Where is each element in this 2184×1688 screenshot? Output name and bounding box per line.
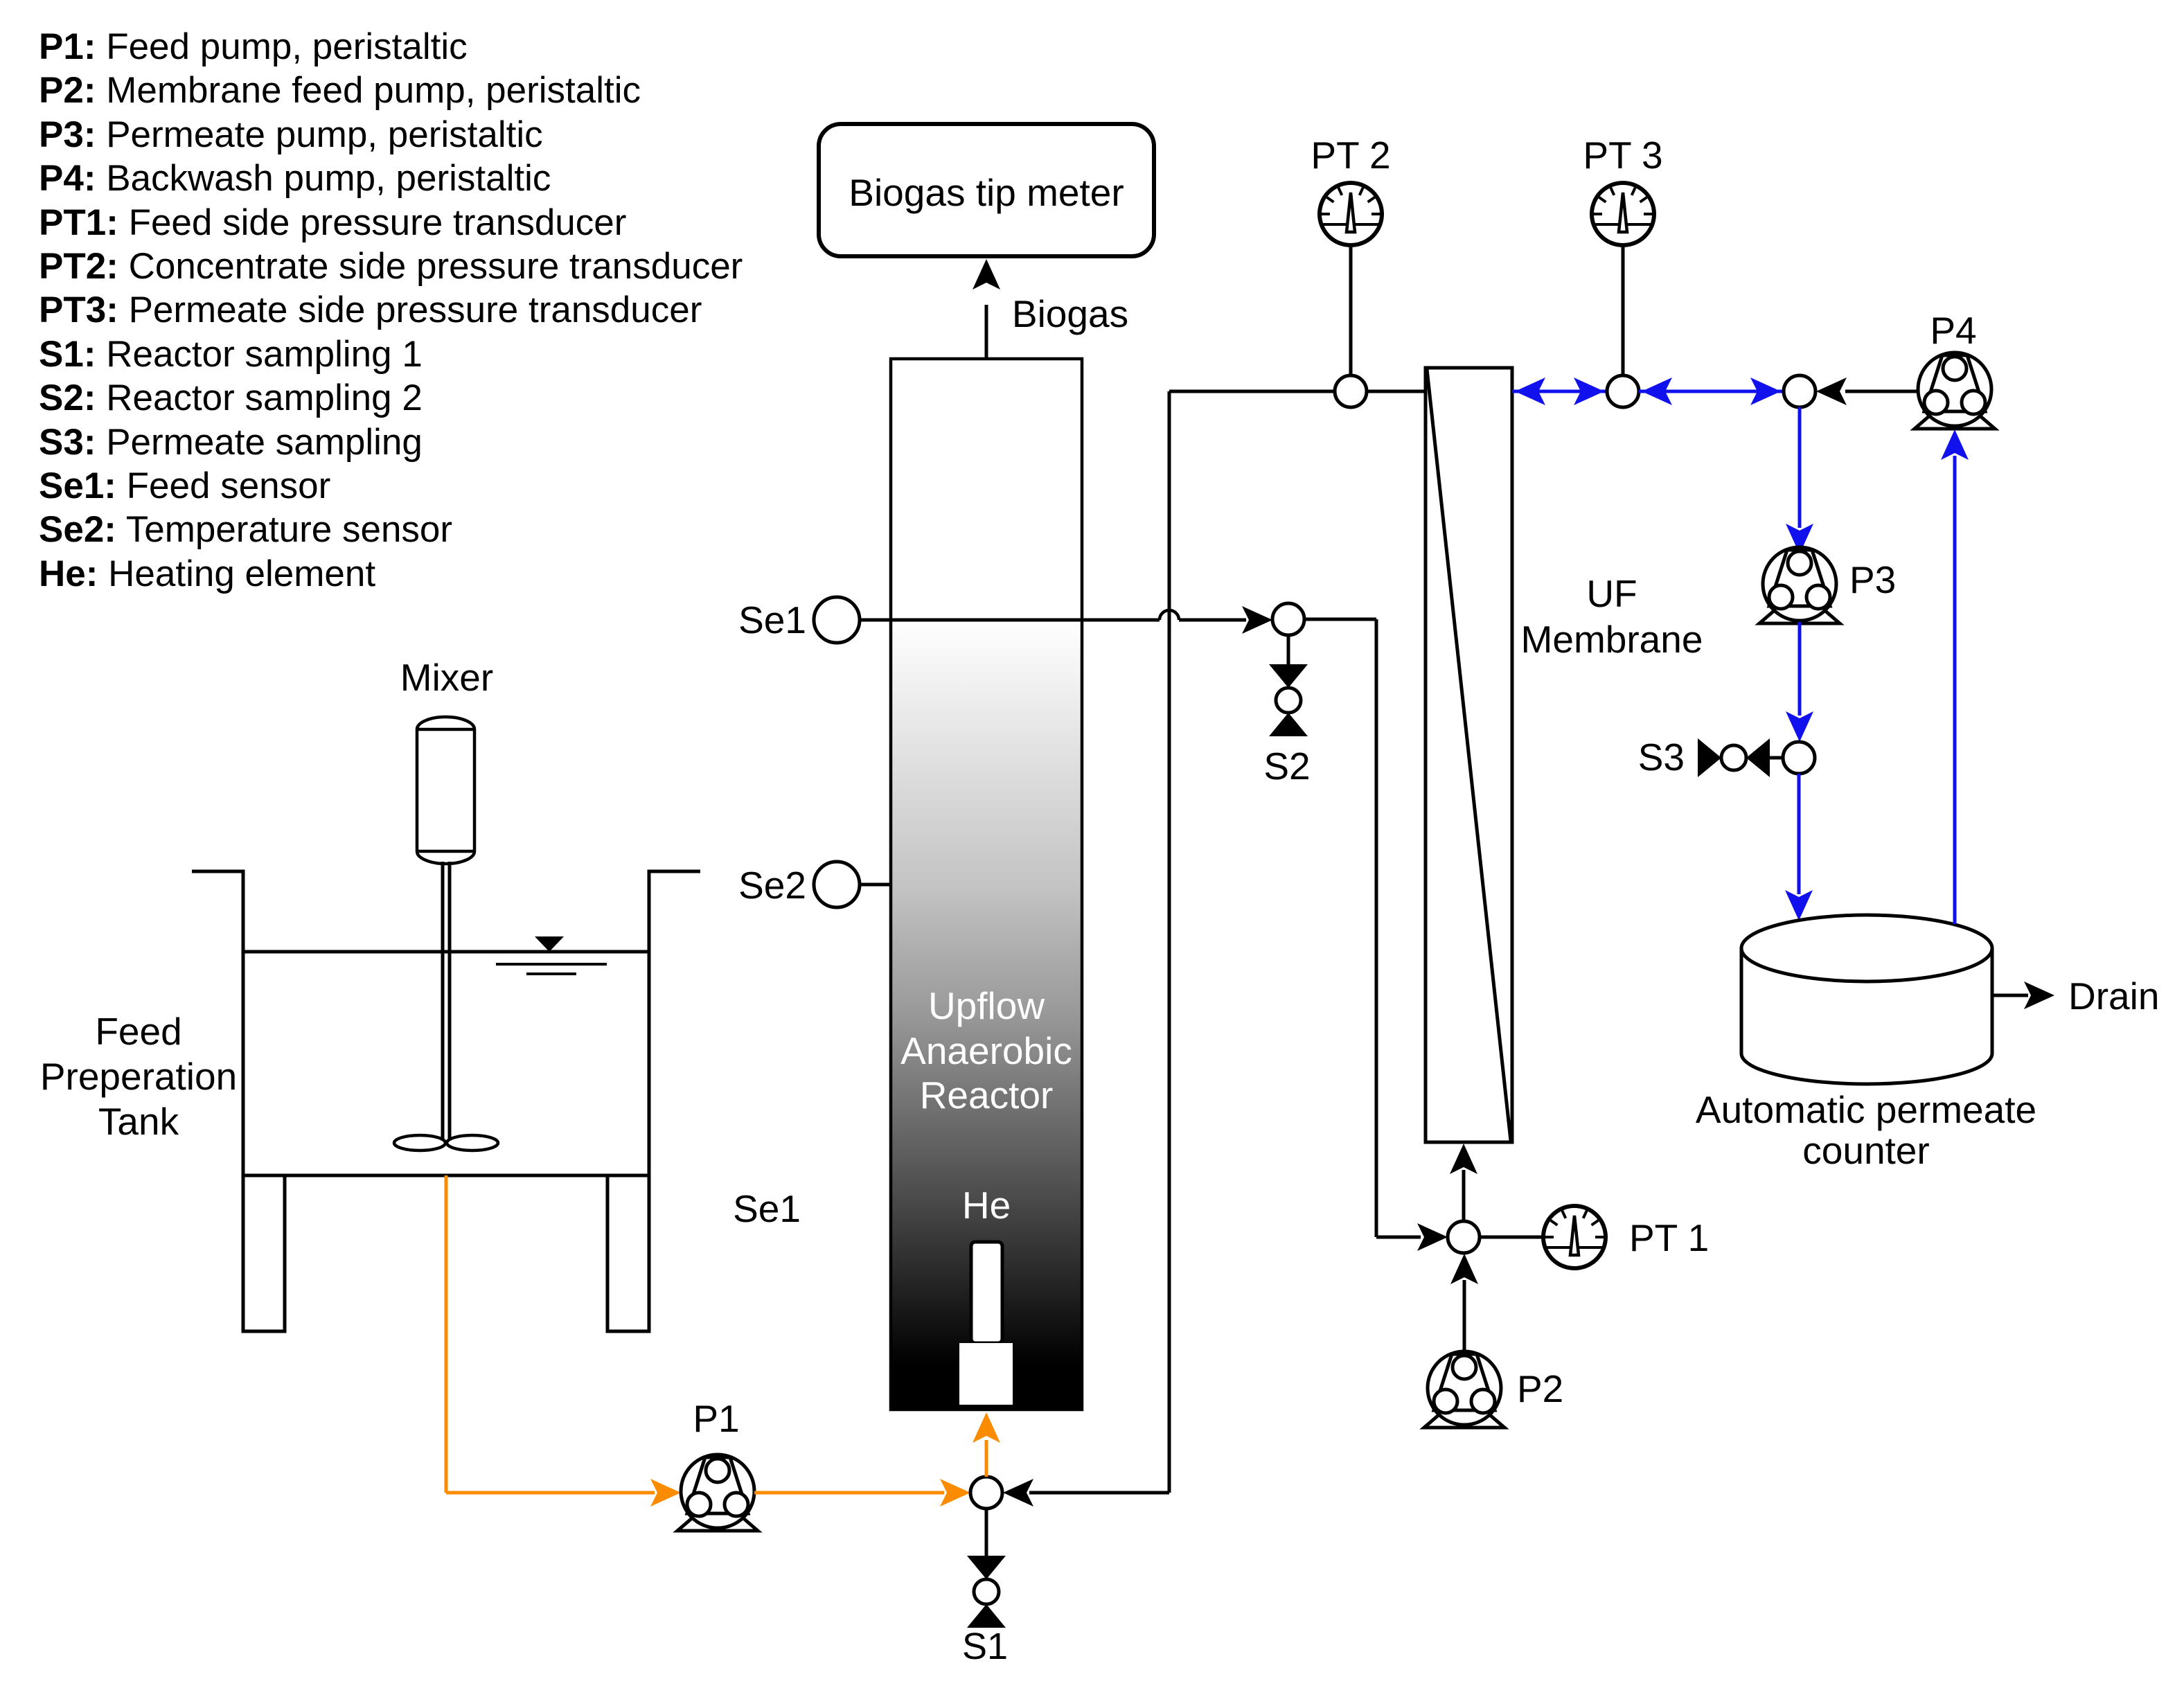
wire orange to pump P1 [446,1491,655,1495]
mixer motor [417,717,474,864]
biogas tip meter box [819,124,1154,256]
svg-text:P4: P4 [1930,309,1976,352]
upflow anaerobic reactor vessel [891,359,1082,1410]
legend text block [39,26,743,594]
pump P2 [1424,1351,1504,1428]
svg-text:Se1: Feed sensor: Se1: Feed sensor [39,465,330,506]
wire P2 to junction [1463,1280,1466,1351]
wire orange P1 to junction [754,1491,944,1495]
pump P4 [1915,353,1995,429]
wire PT3 stem [1622,245,1625,375]
wire S2 junction to membrane feed [1304,618,1376,621]
wire PT1 stem [1480,1236,1544,1239]
wire top concentrate pipe [1169,390,1426,393]
svg-text:PT2: Concentrate side pressure: PT2: Concentrate side pressure transduce… [39,246,743,287]
svg-text:Drain: Drain [2068,975,2159,1018]
svg-text:P3: Permeate pump, peristaltic: P3: Permeate pump, peristaltic [39,114,543,155]
svg-text:Automatic permeate: Automatic permeate [1696,1088,2036,1131]
node PT1 junction [1448,1221,1480,1253]
node PT3 junction [1607,375,1639,407]
svg-text:PT1: Feed side pressure transd: PT1: Feed side pressure transducer [39,202,626,243]
gauge PT2 [1320,183,1382,245]
wire return to feed junction [1029,1491,1169,1495]
svg-text:Reactor: Reactor [920,1074,1054,1117]
pump P1 [677,1455,758,1531]
node PT2 junction [1335,375,1367,407]
svg-text:Se1: Se1 [733,1187,801,1230]
wire left return down [1168,391,1171,1493]
svg-text:Se2: Se2 [738,864,806,907]
mixer shaft [441,862,445,1143]
svg-text:P2: P2 [1517,1367,1563,1410]
valve S2 [1287,635,1290,664]
valve S3 [1698,738,1770,777]
wire orange riser into reactor [985,1440,988,1477]
gauge PT3 [1592,183,1654,245]
svg-text:Biogas: Biogas [1012,292,1128,335]
tank right leg [607,1175,649,1331]
svg-text:P2: Membrane feed pump, perist: P2: Membrane feed pump, peristaltic [39,70,641,111]
automatic permeate counter tank [1741,948,1992,1084]
wire blue P3 to S3 junction [1798,622,1802,716]
svg-text:Upflow: Upflow [928,984,1045,1027]
svg-text:S2: Reactor sampling 2: S2: Reactor sampling 2 [39,377,423,418]
UF membrane module [1426,368,1512,1142]
node S3 junction [1783,742,1815,774]
tank water line [243,950,649,954]
wire blue junction to P3 [1798,407,1802,528]
feed preparation tank body [192,871,700,1175]
wire junction up into membrane [1462,1170,1466,1221]
svg-text:Se1: Se1 [738,598,806,641]
mixer impeller [394,1135,445,1150]
svg-text:PT 2: PT 2 [1311,134,1390,177]
wire PT2 stem [1349,245,1353,375]
svg-text:S3: Permeate sampling: S3: Permeate sampling [39,422,423,463]
svg-text:Feed: Feed [95,1010,181,1053]
svg-text:P4: Backwash pump, peristaltic: P4: Backwash pump, peristaltic [39,158,551,199]
sensor Se2 [814,862,860,907]
svg-text:Se2: Temperature sensor: Se2: Temperature sensor [39,509,452,550]
svg-text:He: Heating element: He: Heating element [39,553,375,594]
wire blue PT3 junction to P-junction [1639,390,1784,393]
tank left leg [243,1175,285,1331]
valve S1 [967,1556,1006,1628]
sensor Se1 [814,597,860,643]
svg-text:Preperation: Preperation [40,1055,237,1098]
wire drain [1992,994,2028,997]
node permeate junction [1784,375,1815,407]
wire blue S3 junction to counter [1797,774,1801,894]
pump P3 [1759,547,1840,623]
svg-text:Anaerobic: Anaerobic [900,1029,1072,1072]
wire blue membrane to PT3 junction [1512,390,1607,393]
wire junction to S1 valve [985,1509,988,1556]
wire Se2 to reactor [860,883,891,887]
wire Se1 line with hop [860,619,1160,622]
water level marker [535,936,564,952]
svg-text:PT 1: PT 1 [1629,1216,1709,1259]
svg-text:P3: P3 [1849,558,1896,601]
svg-text:Tank: Tank [98,1100,179,1143]
svg-text:S1: S1 [962,1626,1008,1667]
node feed junction [970,1477,1002,1509]
svg-text:counter: counter [1802,1129,1929,1172]
membrane diagonal [1427,369,1511,1141]
heating element base [959,1343,1013,1405]
svg-text:He: He [962,1184,1011,1227]
svg-text:Biogas tip meter: Biogas tip meter [849,171,1124,214]
heating element rod [971,1242,1002,1343]
svg-text:S1: Reactor sampling 1: S1: Reactor sampling 1 [39,334,423,375]
svg-text:S3: S3 [1638,736,1685,779]
svg-text:S2: S2 [1263,745,1310,788]
node S2 junction [1272,603,1304,635]
wire biogas line [985,305,988,359]
svg-text:UF: UF [1586,572,1637,615]
svg-text:P1: Feed pump, peristaltic: P1: Feed pump, peristaltic [39,26,468,67]
svg-text:Mixer: Mixer [400,656,493,699]
wire P4 to junction [1845,390,1918,393]
svg-text:PT3: Permeate side pressure tr: PT3: Permeate side pressure transducer [39,290,702,330]
svg-text:Membrane: Membrane [1521,618,1703,661]
wire blue counter to P4 [1953,456,1957,924]
svg-text:P1: P1 [693,1397,739,1440]
wire orange tank outlet down [445,1175,448,1493]
gauge PT1 [1543,1206,1606,1268]
svg-text:PT 3: PT 3 [1583,134,1662,177]
